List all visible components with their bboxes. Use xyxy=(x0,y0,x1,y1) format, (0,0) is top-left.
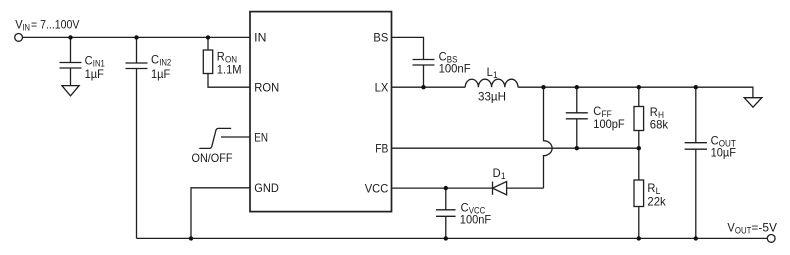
svg-text:FB: FB xyxy=(375,142,388,156)
svg-text:33µH: 33µH xyxy=(478,90,506,104)
svg-text:1: 1 xyxy=(501,171,506,181)
svg-text:IN: IN xyxy=(254,31,266,45)
svg-text:IN2: IN2 xyxy=(159,58,171,68)
svg-text:1: 1 xyxy=(493,70,498,80)
svg-text:OUT: OUT xyxy=(735,225,752,235)
svg-text:IN: IN xyxy=(22,22,30,32)
svg-text:100pF: 100pF xyxy=(593,117,624,131)
svg-text:1µF: 1µF xyxy=(85,67,104,81)
svg-text:V: V xyxy=(727,220,734,234)
svg-text:10µF: 10µF xyxy=(711,145,736,159)
svg-text:VCC: VCC xyxy=(365,181,389,195)
svg-text:LX: LX xyxy=(375,81,389,95)
svg-text:D: D xyxy=(493,166,501,180)
svg-text:BS: BS xyxy=(373,31,388,45)
svg-text:100nF: 100nF xyxy=(439,62,471,76)
svg-text:R: R xyxy=(217,49,225,63)
svg-text:=-5V: =-5V xyxy=(751,220,777,234)
svg-text:ON/OFF: ON/OFF xyxy=(192,151,233,165)
svg-text:EN: EN xyxy=(254,130,268,144)
svg-text:1µF: 1µF xyxy=(151,67,170,81)
svg-text:1.1M: 1.1M xyxy=(217,63,242,77)
svg-text:22k: 22k xyxy=(647,194,666,208)
svg-text:RON: RON xyxy=(254,81,279,95)
svg-text:100nF: 100nF xyxy=(460,212,491,226)
svg-text:68k: 68k xyxy=(650,118,669,132)
svg-text:= 7...100V: = 7...100V xyxy=(31,17,79,31)
svg-text:C: C xyxy=(85,53,93,67)
svg-text:C: C xyxy=(151,53,159,67)
svg-text:R: R xyxy=(647,181,655,195)
svg-text:GND: GND xyxy=(254,181,279,195)
